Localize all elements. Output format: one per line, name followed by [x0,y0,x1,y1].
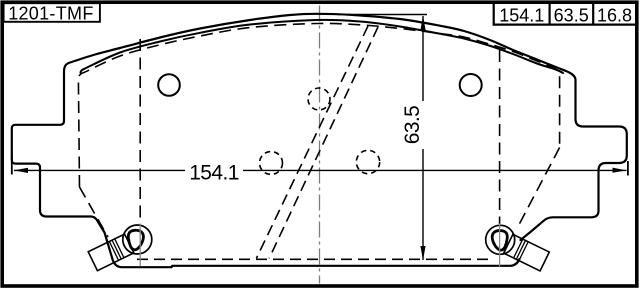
wear indicator clip left [88,224,152,271]
vertical centerline (dash-dot, gray) [319,6,321,284]
top arrowhead [420,16,425,30]
friction bottom hidden edge (dashed) [137,258,489,260]
section line 1 (dashed diagonal) [256,26,368,258]
left arrowhead [14,168,28,173]
hole left (solid circle) [158,74,180,96]
friction material hidden contour (dashed) [78,23,559,187]
friction chamfer right (dashed diagonal) [518,148,560,228]
boss centerline tick left (gray) [139,224,141,267]
top extension line [337,14,427,16]
svg-text:154.1: 154.1 [499,6,544,26]
svg-text:1201-TMF: 1201-TMF [8,3,93,23]
hidden vertical edge left (dashed) [139,39,141,224]
hidden hole mid-right (dashed circle) [356,150,379,173]
horizontal dimension line 154.1 [12,155,628,184]
hidden hole mid-left (dashed circle) [260,152,283,175]
vertical dimension line 63.5 [337,15,427,261]
section line 2 (dashed diagonal) [269,27,378,258]
friction chamfer left (dashed diagonal) [80,187,109,237]
svg-text:63.5: 63.5 [554,6,589,26]
title box 1201-TMF [4,3,100,22]
inner top arc (plate edge) [81,20,564,73]
clip retainer D-shape right [492,231,507,251]
hidden vertical edge right (dashed) [499,50,501,224]
boss centerline tick right (gray) [499,224,501,267]
dimension table top-right [493,3,637,25]
bottom arrowhead [420,246,425,260]
svg-text:16.8: 16.8 [597,6,632,26]
clip retainer D-shape left [128,230,143,250]
right arrowhead [613,168,627,173]
left extension tick [11,155,13,175]
svg-text:63.5: 63.5 [401,106,424,144]
svg-text:154.1: 154.1 [189,161,239,184]
wear indicator clip right [486,224,550,271]
right extension tick [627,161,629,176]
hidden hole top-center (dashed circle) [308,88,330,110]
hole right (solid circle) [460,74,482,96]
